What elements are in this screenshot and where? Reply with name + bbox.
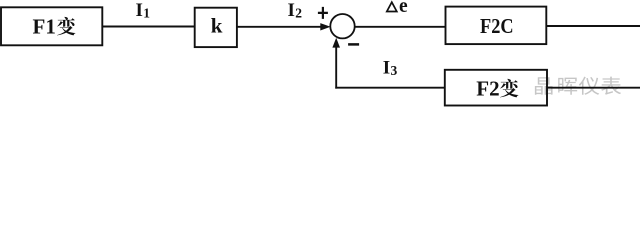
plus sign [318,7,328,19]
block k [195,8,237,47]
svg-text:k: k [211,14,223,38]
label delta-e [387,0,408,17]
watermark [535,77,621,95]
svg-text:I3: I3 [383,58,398,79]
output wire to right edge [546,25,640,27]
bottom wire from right edge to F2bian [547,87,640,89]
block F2C [446,7,547,45]
block F2bian [445,70,547,106]
feedback wire horizontal [335,87,445,89]
feedback wire vertical with up arrowhead [332,38,340,89]
svg-text:I1: I1 [136,0,151,21]
svg-text:F2C: F2C [480,14,514,38]
svg-text:I2: I2 [288,0,303,21]
svg-text:F2: F2 [476,76,499,100]
svg-text:e: e [399,0,408,17]
block F1bian [1,7,102,45]
minus sign [348,43,359,46]
wire F1 to k [102,26,194,28]
svg-text:F1: F1 [33,14,56,38]
wire summing junction to F2C [355,26,446,28]
wire k to summing junction [237,23,331,30]
summing junction circle [330,14,354,38]
